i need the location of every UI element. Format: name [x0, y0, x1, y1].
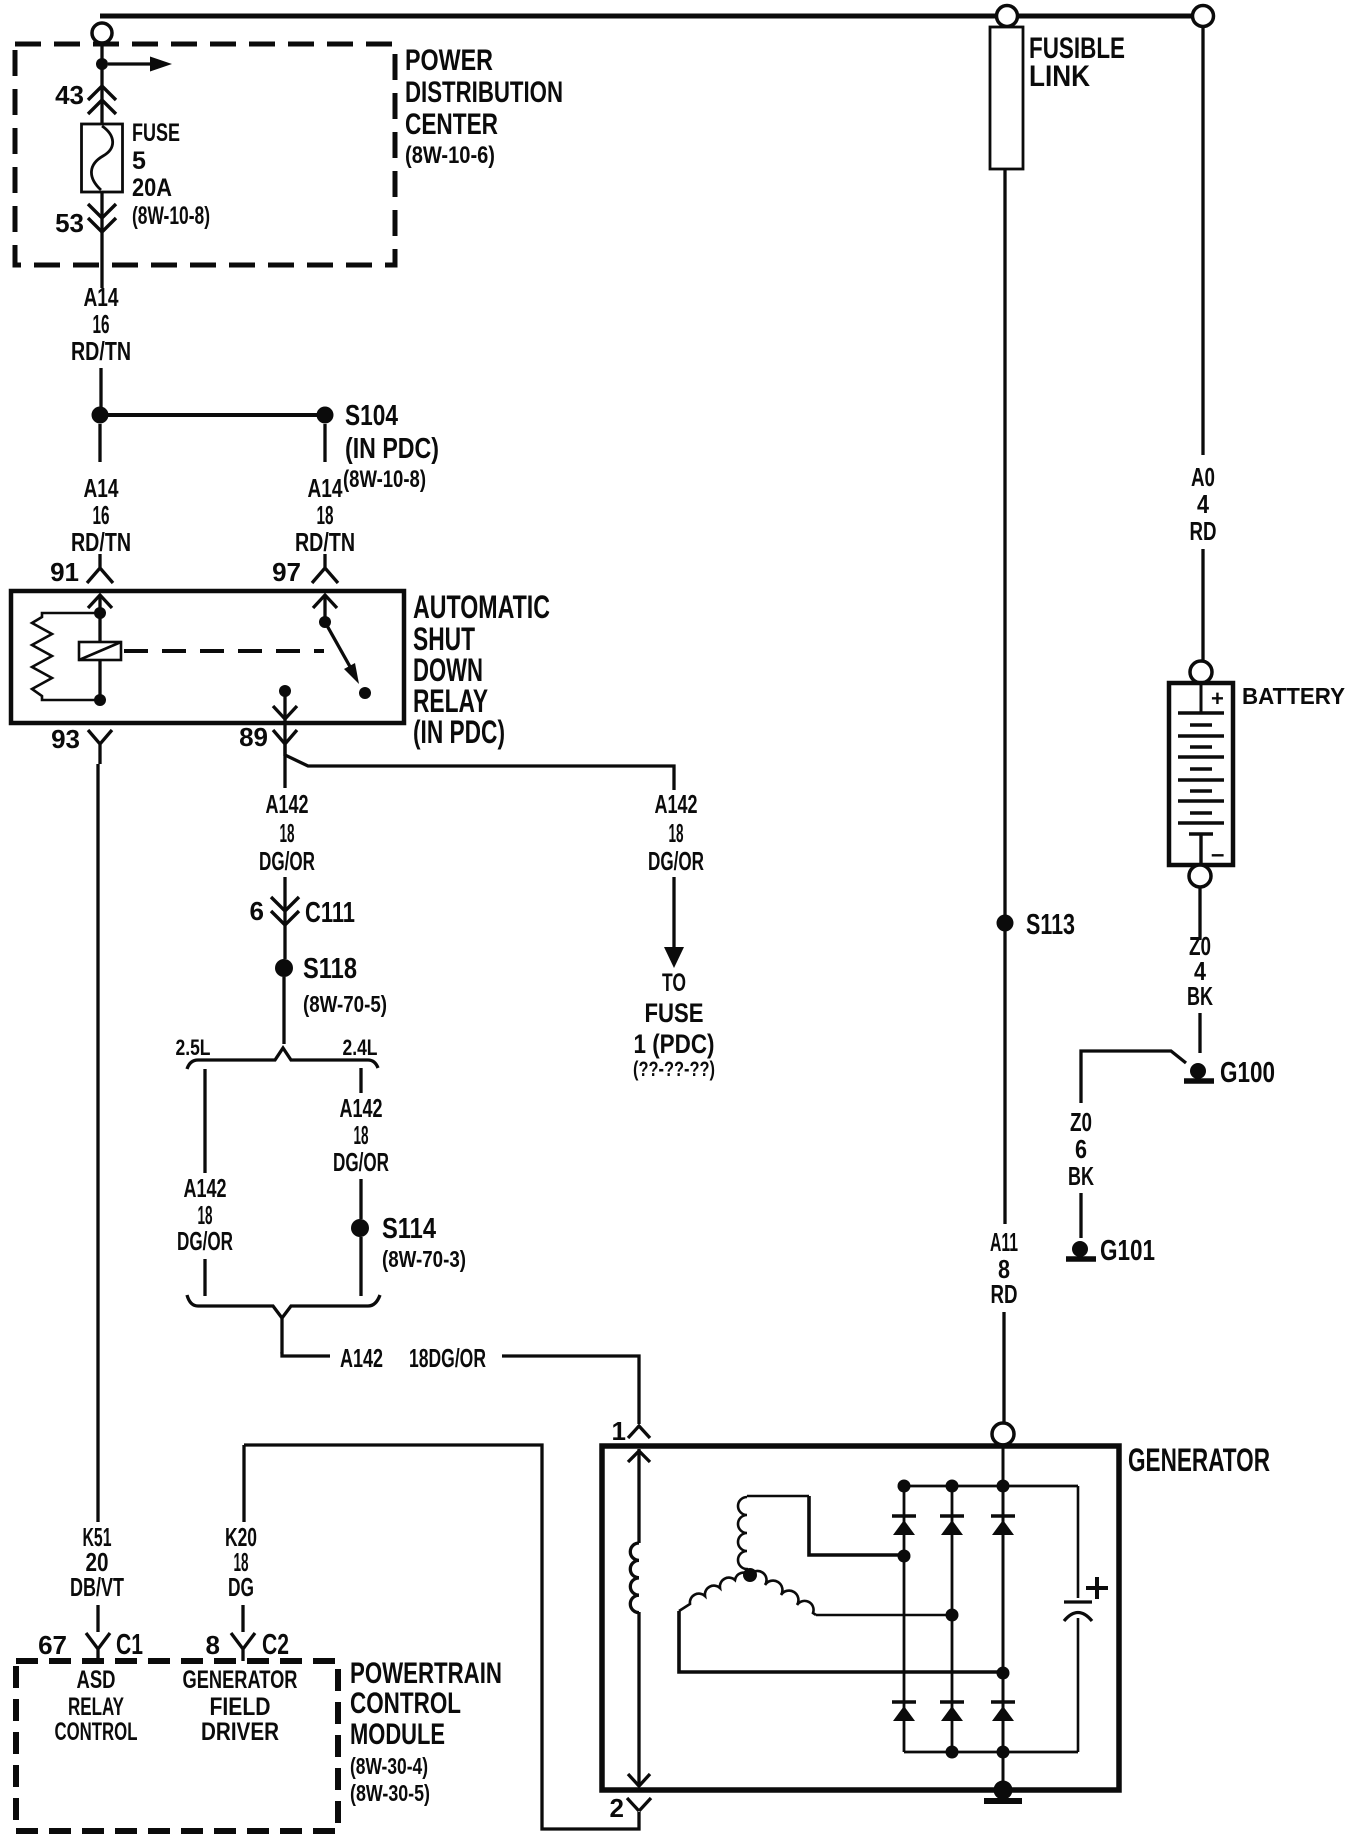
svg-text:(8W-70-3): (8W-70-3) [382, 1246, 466, 1272]
svg-text:A14: A14 [84, 473, 119, 503]
label C1 [116, 1629, 143, 1661]
connector C111 chevrons [271, 897, 299, 925]
svg-text:DRIVER: DRIVER [201, 1718, 279, 1746]
junction dot stator tap 2 [946, 1609, 959, 1622]
connector Y pin 97 [312, 554, 338, 583]
label S104 (IN PDC) (8W-10-8) [343, 400, 439, 493]
engine option merge bracket [187, 1295, 380, 1318]
arrow to fuse 1 [672, 877, 675, 947]
svg-text:CONTROL: CONTROL [350, 1687, 461, 1720]
wire to G100 [1198, 1013, 1201, 1053]
svg-text:16: 16 [93, 500, 110, 530]
wire 2.5L branch lower [203, 1259, 206, 1296]
connector chevrons pin 43 [88, 86, 116, 114]
svg-text:(8W-70-5): (8W-70-5) [303, 991, 387, 1017]
svg-text:18: 18 [354, 1120, 369, 1150]
svg-text:A142: A142 [340, 1093, 383, 1123]
svg-text:ASD: ASD [77, 1666, 116, 1694]
label 2.4L [343, 1035, 378, 1060]
svg-text:91: 91 [50, 557, 79, 587]
svg-text:8: 8 [206, 1630, 220, 1660]
wire K51 to PCM [96, 1605, 99, 1632]
fuse value label FUSE 5 20A (8W-10-8) [132, 119, 210, 230]
wire label K20 18 DG [225, 1522, 257, 1602]
label 2.5L [176, 1035, 211, 1060]
stator vertical coil [738, 1497, 750, 1575]
svg-text:A142: A142 [184, 1173, 227, 1203]
svg-text:(??-??-??): (??-??-??) [633, 1058, 715, 1081]
junction dot stator tap 1 [898, 1550, 911, 1563]
diode D6 [991, 1700, 1015, 1703]
wire label A142 18 DG/OR (2.5L) [177, 1173, 233, 1256]
svg-text:CONTROL: CONTROL [55, 1718, 138, 1746]
wire label K51 20 DB/VT [70, 1522, 124, 1602]
svg-text:20A: 20A [132, 174, 172, 202]
pin 97 label [272, 557, 301, 587]
label S118 (8W-70-5) [303, 953, 387, 1017]
svg-text:A0: A0 [1191, 462, 1215, 492]
pin 53 label [55, 208, 84, 238]
wire C111 to S118 [283, 925, 286, 959]
splice dot S104 [317, 407, 334, 424]
svg-text:(8W-10-6): (8W-10-6) [405, 142, 495, 169]
stator winding top bar [747, 1495, 809, 1498]
svg-text:1 (PDC): 1 (PDC) [634, 1029, 715, 1059]
svg-text:G101: G101 [1100, 1235, 1155, 1267]
wire field coil to pin 2 [637, 1612, 640, 1786]
wire fuse to label [100, 192, 103, 288]
svg-text:(8W-10-8): (8W-10-8) [132, 202, 210, 230]
contact dot common [319, 616, 331, 628]
wire corner to label [282, 1352, 330, 1356]
splice S104 tie wire [100, 413, 325, 417]
fuse 5 20A [82, 124, 123, 192]
label POWERTRAIN CONTROL MODULE [350, 1657, 502, 1806]
pin 93 label [51, 724, 80, 754]
junction dot stator tap 3 [997, 1667, 1010, 1680]
wire merge to corner [282, 1318, 283, 1352]
diode D4 [892, 1700, 916, 1703]
battery minus terminal [1189, 834, 1213, 865]
junction dot coil top [94, 607, 106, 619]
diode D2 [940, 1514, 964, 1517]
relay coil [79, 642, 121, 660]
svg-text:97: 97 [272, 557, 301, 587]
svg-text:RD/TN: RD/TN [295, 527, 355, 557]
svg-text:2.5L: 2.5L [176, 1035, 211, 1060]
svg-text:DB/VT: DB/VT [70, 1572, 124, 1602]
junction dots rectifier top bus [898, 1480, 911, 1493]
wire A0 to battery [1201, 549, 1204, 661]
pin 89 dot [279, 685, 291, 697]
svg-text:53: 53 [55, 208, 84, 238]
label GENERATOR FIELD DRIVER [183, 1666, 298, 1746]
rectifier bottom bus [904, 1751, 1078, 1754]
wire label A142 18DG/OR inline [340, 1343, 486, 1373]
capacitor C1 branch [1077, 1486, 1080, 1752]
wire label to generator pin 1 [502, 1356, 639, 1424]
connector Y pin 2 [627, 1798, 651, 1811]
label ASD RELAY CONTROL [55, 1666, 138, 1746]
svg-text:A14: A14 [84, 282, 119, 312]
wire pin 97 to contact [323, 595, 326, 622]
switch arm with arrowhead [325, 622, 353, 672]
wire circle to fuse [100, 43, 103, 124]
wire pin 89 out of box [283, 691, 286, 742]
ground G101 [1072, 1241, 1088, 1257]
arrow chevron out pin 89 [273, 706, 297, 719]
rectifier top bus [904, 1485, 1078, 1488]
wire stub below junction [98, 424, 101, 462]
svg-text:89: 89 [239, 722, 268, 752]
svg-text:(8W-30-5): (8W-30-5) [350, 1780, 430, 1806]
wire label A142 18 DG/OR (fuse 1 branch) [648, 789, 704, 876]
wire stub below S104 [323, 424, 326, 462]
connector chevron pin 1 [628, 1426, 650, 1438]
wire 2.5L branch upper [203, 1069, 206, 1173]
wire label Z0 6 BK [1068, 1107, 1094, 1191]
connector Y pin 93 below box [88, 730, 112, 764]
svg-text:6: 6 [1075, 1134, 1087, 1164]
diode D1 [892, 1514, 916, 1517]
generator case ground [994, 1781, 1013, 1800]
svg-text:C1: C1 [116, 1629, 143, 1661]
svg-text:GENERATOR: GENERATOR [1128, 1442, 1270, 1478]
svg-text:93: 93 [51, 724, 80, 754]
field coil L1 [630, 1543, 639, 1613]
capacitor + label [1086, 1577, 1108, 1599]
svg-text:S118: S118 [303, 953, 357, 985]
label G100 [1220, 1057, 1275, 1089]
svg-text:AUTOMATIC: AUTOMATIC [413, 589, 550, 625]
battery terminal circle - [1189, 865, 1211, 887]
wire A11 to generator circle [1002, 1312, 1005, 1423]
wire label A0 4 RD [1190, 462, 1217, 546]
label S114 (8W-70-3) [382, 1213, 466, 1272]
svg-text:Z0: Z0 [1070, 1107, 1092, 1137]
junction dots rectifier bottom bus [946, 1746, 959, 1759]
svg-text:RELAY: RELAY [68, 1693, 124, 1721]
dashed actuation link [124, 649, 324, 653]
svg-text:DG/OR: DG/OR [259, 846, 315, 876]
svg-text:A142: A142 [266, 789, 309, 819]
stator tap 3 wire [679, 1611, 1002, 1672]
svg-text:POWER: POWER [405, 44, 493, 77]
diode D5 [940, 1700, 964, 1703]
arrow chevron into box pin 97 [313, 595, 337, 608]
wire K20 to PCM [241, 1605, 244, 1632]
svg-text:FIELD: FIELD [210, 1693, 271, 1721]
svg-text:S104: S104 [345, 400, 398, 432]
wire label to splice [99, 368, 102, 409]
wire top bus [100, 14, 1203, 19]
wire label A14 16 RD/TN upper [71, 282, 131, 366]
svg-text:MODULE: MODULE [350, 1718, 445, 1751]
svg-text:A142: A142 [340, 1343, 383, 1373]
pin 43 label [55, 80, 84, 110]
connector circle fusible link feed [997, 6, 1018, 27]
label AUTOMATIC SHUT DOWN RELAY (IN PDC) [413, 589, 550, 750]
svg-text:RD/TN: RD/TN [71, 336, 131, 366]
wire label A11 8 RD [990, 1227, 1018, 1309]
relay U1 automatic shut down relay box [11, 591, 404, 723]
connector circle battery feed [1193, 6, 1214, 27]
splice dot S118 [275, 959, 293, 977]
stator winding right leg [750, 1571, 816, 1615]
wire field driver to generator pin 2 [244, 1445, 639, 1829]
connector Y pin 89 below box [273, 730, 297, 755]
svg-text:A14: A14 [308, 473, 343, 503]
pin 91 label [50, 557, 79, 587]
powertrain control module box [16, 1661, 338, 1831]
svg-text:DG/OR: DG/OR [648, 846, 704, 876]
rectifier leg 2 [951, 1486, 954, 1752]
diode D3 [991, 1514, 1015, 1517]
pin 67 label [38, 1630, 67, 1660]
svg-text:RD/TN: RD/TN [71, 527, 131, 557]
pin 1 label [612, 1416, 626, 1446]
svg-text:2.4L: 2.4L [343, 1035, 378, 1060]
generator terminal circle [992, 1423, 1014, 1445]
label GENERATOR [1128, 1442, 1270, 1478]
splice dot S113 [997, 915, 1014, 932]
arrow chevron into box pin 1 [628, 1451, 650, 1462]
wire 89 branch to fuse 1 feed [285, 744, 674, 790]
wire battery to ground [1198, 887, 1201, 940]
stator tap 1 wire [809, 1496, 904, 1555]
svg-text:4: 4 [1197, 489, 1209, 519]
wire label A142 18 DG/OR (2.4L) [333, 1093, 389, 1177]
svg-text:+: + [1211, 686, 1224, 711]
connector Y pin 91 [87, 554, 113, 583]
svg-text:TO: TO [662, 969, 686, 997]
wire to G101 [1079, 1193, 1082, 1238]
svg-text:2: 2 [610, 1793, 624, 1823]
svg-text:(IN PDC): (IN PDC) [413, 714, 505, 750]
battery terminal circle + [1190, 661, 1212, 683]
arrow to other PDC circuits [108, 62, 150, 65]
generator G1 box [602, 1446, 1119, 1790]
junction dot A14 [92, 407, 109, 424]
resistor relay suppression [32, 613, 100, 700]
svg-text:67: 67 [38, 1630, 67, 1660]
svg-text:18: 18 [280, 818, 295, 848]
svg-text:RD: RD [991, 1279, 1018, 1309]
svg-text:BATTERY: BATTERY [1242, 683, 1345, 709]
wire K51 asd relay control [96, 764, 99, 1522]
svg-text:(8W-30-4): (8W-30-4) [350, 1753, 428, 1779]
wire S118 to engine split [282, 977, 285, 1044]
wire label A14 18 RD/TN right [295, 473, 355, 557]
battery plates [1178, 713, 1224, 823]
svg-text:18: 18 [669, 818, 684, 848]
wire K20 generator field driver [242, 1445, 245, 1522]
svg-text:FUSE: FUSE [645, 998, 704, 1028]
splice dot S114 [351, 1219, 369, 1237]
svg-text:CENTER: CENTER [405, 108, 498, 141]
label FUSIBLE LINK [1029, 32, 1125, 93]
power distribution center box [15, 44, 395, 265]
wire 89 down branch [283, 755, 286, 788]
junction dot coil bottom [94, 694, 106, 706]
svg-text:DG: DG [228, 1572, 254, 1602]
wire 2.4L branch upper [359, 1068, 362, 1093]
engine option split bracket [187, 1048, 378, 1069]
svg-text:FUSE: FUSE [132, 119, 180, 147]
fusible link [990, 27, 1023, 169]
svg-text:5: 5 [132, 147, 146, 175]
wire to connector C111 [283, 877, 286, 925]
svg-text:G100: G100 [1220, 1057, 1275, 1089]
stator junction dot [743, 1568, 757, 1582]
svg-text:DG/OR: DG/OR [177, 1226, 233, 1256]
wire Z0 branch to G100 [1081, 1051, 1186, 1103]
svg-text:A11: A11 [990, 1227, 1018, 1257]
label TO FUSE 1 (PDC) [633, 969, 715, 1081]
svg-text:(8W-10-8): (8W-10-8) [343, 466, 426, 493]
pin 8 label [206, 1630, 220, 1660]
arrow chevron into box pin 91 [88, 595, 112, 608]
rectifier leg 1 [903, 1486, 906, 1752]
wire S114 down [359, 1237, 362, 1296]
rectifier leg 3 wire [1002, 1445, 1005, 1790]
svg-text:16: 16 [93, 309, 110, 339]
capacitor plates [1064, 1600, 1092, 1603]
svg-text:DG/OR: DG/OR [333, 1147, 389, 1177]
svg-text:RD: RD [1190, 516, 1217, 546]
ground G100 [1190, 1063, 1206, 1079]
wire pin 1 to field coil [637, 1449, 640, 1543]
svg-text:–: – [1211, 841, 1224, 868]
pin 89 label [239, 722, 268, 752]
junction dot [96, 58, 108, 70]
svg-text:C111: C111 [305, 897, 355, 929]
label C111 [305, 897, 355, 929]
battery BT1 [1169, 683, 1233, 865]
svg-text:S113: S113 [1026, 909, 1075, 941]
svg-text:LINK: LINK [1029, 60, 1090, 93]
stator winding left leg [679, 1573, 750, 1611]
svg-text:DISTRIBUTION: DISTRIBUTION [405, 76, 563, 109]
stator tap 2 wire [816, 1614, 952, 1617]
svg-text:S114: S114 [382, 1213, 436, 1245]
svg-text:18DG/OR: 18DG/OR [409, 1343, 486, 1373]
svg-text:BK: BK [1068, 1161, 1094, 1191]
label C2 [262, 1629, 289, 1661]
svg-text:18: 18 [317, 500, 334, 530]
connector Y pin 8 C2 [231, 1633, 255, 1661]
svg-text:GENERATOR: GENERATOR [183, 1666, 298, 1694]
wire label Z0 4 BK [1187, 931, 1213, 1011]
svg-text:BK: BK [1187, 981, 1213, 1011]
connector circle PDC feed [92, 23, 112, 43]
connector Y pin 67 C1 [86, 1633, 110, 1661]
wire label A142 18 DG/OR (left of split) [259, 789, 315, 876]
svg-text:A142: A142 [655, 789, 698, 819]
pin 6 label [250, 896, 264, 926]
svg-text:POWERTRAIN: POWERTRAIN [350, 1657, 502, 1690]
svg-text:6: 6 [250, 896, 264, 926]
pin 2 label [610, 1793, 624, 1823]
label BATTERY [1242, 683, 1345, 709]
svg-text:C2: C2 [262, 1629, 289, 1661]
connector chevrons pin 53 [88, 204, 116, 232]
label S113 [1026, 909, 1075, 941]
label POWER DISTRIBUTION CENTER [405, 44, 563, 169]
label G101 [1100, 1235, 1155, 1267]
arrow chevron to box edge pin 2 [628, 1774, 650, 1786]
svg-text:(IN PDC): (IN PDC) [345, 433, 439, 465]
wire 2.4L to S114 [359, 1179, 362, 1219]
wire battery feed A0 [1201, 27, 1204, 455]
svg-text:43: 43 [55, 80, 84, 110]
wire coil feed [98, 595, 101, 700]
wire label A14 16 RD/TN left [71, 473, 131, 557]
svg-text:1: 1 [612, 1416, 626, 1446]
wire A11 fusible link to generator [1003, 169, 1006, 1224]
contact dot normally open [359, 687, 371, 699]
